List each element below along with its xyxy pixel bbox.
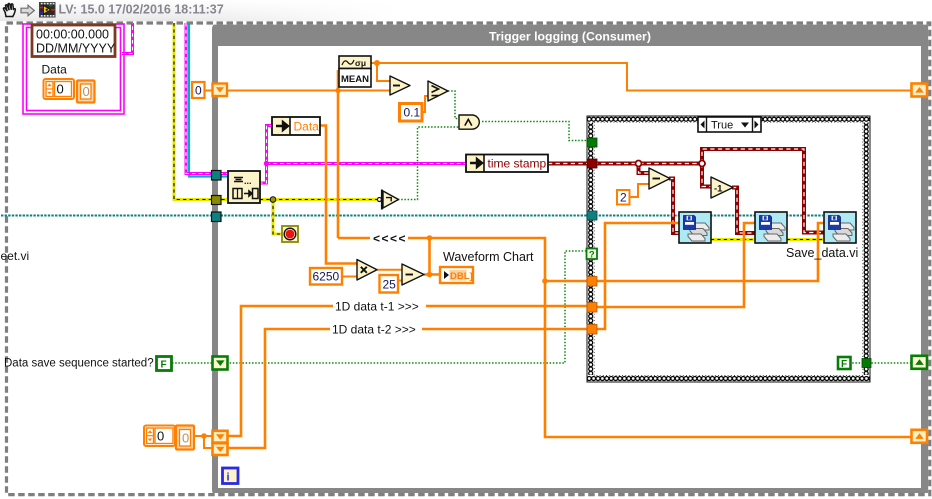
svg-text:1D data t-1 >>>: 1D data t-1 >>> — [335, 300, 419, 314]
svg-text:DBL]: DBL] — [450, 271, 473, 282]
svg-text:2: 2 — [620, 191, 627, 205]
svg-text:0: 0 — [157, 429, 164, 444]
svg-text:0: 0 — [57, 82, 64, 97]
svg-text:00:00:00.000: 00:00:00.000 — [36, 28, 109, 42]
svg-text:6250: 6250 — [313, 270, 340, 284]
svg-text:0: 0 — [195, 84, 202, 98]
svg-text:Trigger logging (Consumer): Trigger logging (Consumer) — [489, 30, 651, 44]
svg-text:Waveform Chart: Waveform Chart — [443, 250, 534, 264]
svg-text:Data save sequence started?: Data save sequence started? — [4, 358, 154, 370]
svg-text:-1: -1 — [714, 184, 723, 195]
svg-text:Data: Data — [42, 63, 68, 77]
svg-text:Data: Data — [294, 120, 320, 134]
svg-text:...: ... — [244, 176, 252, 186]
svg-text:True: True — [711, 120, 733, 132]
svg-text:25: 25 — [383, 278, 397, 292]
svg-text:<<<<: <<<< — [373, 232, 407, 246]
svg-text:0: 0 — [83, 84, 90, 99]
svg-text:0.1: 0.1 — [404, 106, 421, 120]
svg-text:DD/MM/YYYY: DD/MM/YYYY — [36, 42, 116, 56]
svg-text:F: F — [161, 360, 167, 371]
svg-text:time stamp: time stamp — [488, 157, 547, 171]
svg-text:MEAN: MEAN — [341, 74, 369, 85]
svg-text:LV: 15.0 17/02/2016 18:11:37: LV: 15.0 17/02/2016 18:11:37 — [59, 3, 224, 17]
svg-text:Save_data.vi: Save_data.vi — [786, 246, 858, 260]
svg-text:i: i — [226, 472, 229, 484]
svg-text:F: F — [841, 359, 847, 370]
svg-text:eet.vi: eet.vi — [1, 249, 30, 263]
svg-text:1D data t-2 >>>: 1D data t-2 >>> — [332, 323, 416, 337]
svg-text:0: 0 — [182, 431, 189, 446]
svg-text:σμ: σμ — [355, 58, 366, 68]
svg-text:?: ? — [589, 250, 595, 261]
